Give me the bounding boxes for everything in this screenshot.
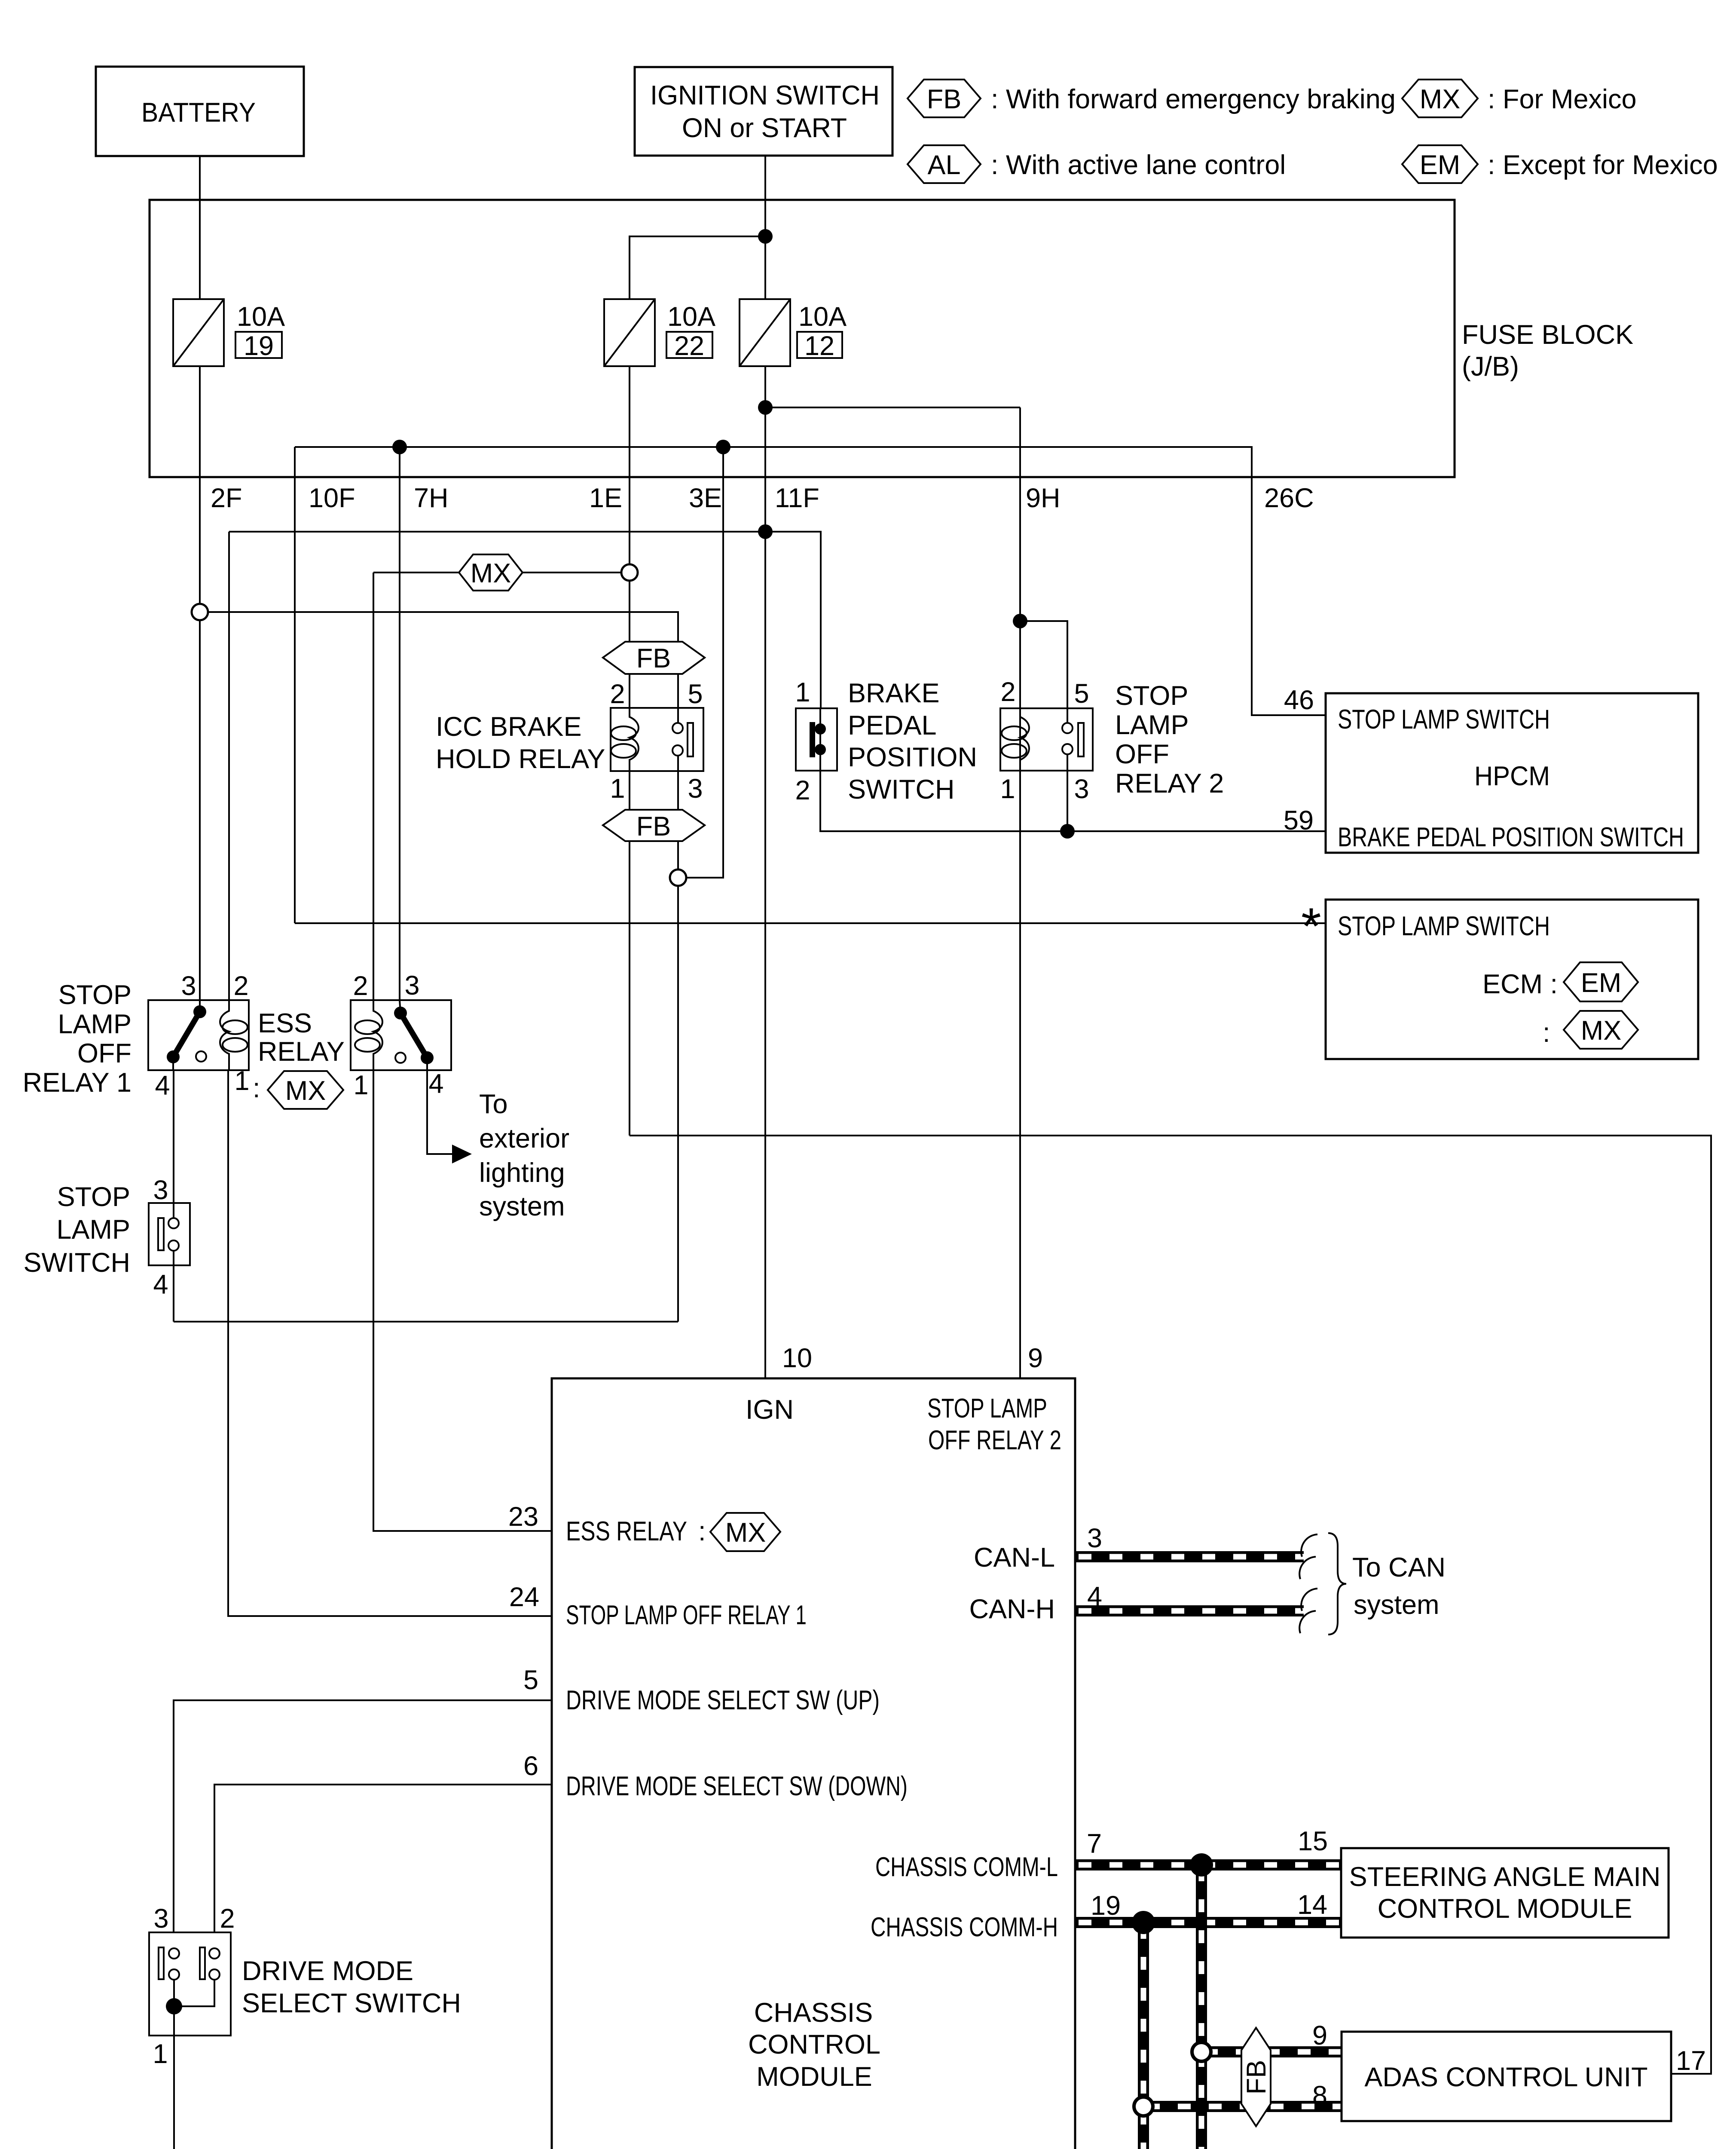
- svg-text:FB: FB: [927, 84, 962, 114]
- svg-text::: :: [253, 1073, 260, 1103]
- svg-text:22: 22: [674, 331, 704, 361]
- svg-text:ADAS CONTROL UNIT: ADAS CONTROL UNIT: [1364, 2062, 1647, 2092]
- svg-text:12: 12: [804, 331, 834, 361]
- svg-text:3: 3: [1074, 774, 1089, 804]
- svg-text:DRIVE MODE SELECT SW (UP): DRIVE MODE SELECT SW (UP): [566, 1685, 880, 1715]
- svg-text:STOP LAMP: STOP LAMP: [927, 1393, 1047, 1423]
- svg-text:2F: 2F: [211, 483, 242, 513]
- svg-text:8: 8: [1312, 2081, 1327, 2111]
- svg-text:2: 2: [353, 971, 368, 1001]
- svg-text:To: To: [479, 1089, 508, 1119]
- svg-text:ON or START: ON or START: [682, 113, 847, 143]
- svg-text:19: 19: [244, 331, 274, 361]
- svg-text:system: system: [1354, 1590, 1440, 1620]
- svg-text:BRAKE PEDAL POSITION SWITCH: BRAKE PEDAL POSITION SWITCH: [1338, 822, 1684, 852]
- svg-text:DRIVE MODE SELECT SW (DOWN): DRIVE MODE SELECT SW (DOWN): [566, 1771, 908, 1801]
- svg-text:3E: 3E: [689, 483, 722, 513]
- svg-text:26C: 26C: [1264, 483, 1314, 513]
- svg-text:9: 9: [1028, 1343, 1043, 1373]
- svg-text:6: 6: [523, 1751, 538, 1781]
- svg-text:24: 24: [509, 1582, 539, 1612]
- svg-text:MODULE: MODULE: [756, 2062, 872, 2092]
- svg-text:*: *: [1301, 897, 1321, 955]
- svg-text:4: 4: [1087, 1582, 1102, 1612]
- svg-text:7H: 7H: [414, 483, 449, 513]
- svg-text:ECM :: ECM :: [1482, 969, 1558, 999]
- svg-text:5: 5: [523, 1665, 538, 1695]
- svg-text:exterior: exterior: [479, 1123, 569, 1154]
- svg-text:CAN-H: CAN-H: [969, 1594, 1055, 1624]
- svg-text:: For Mexico: : For Mexico: [1488, 84, 1637, 114]
- svg-text:STEERING ANGLE MAIN: STEERING ANGLE MAIN: [1349, 1862, 1661, 1892]
- svg-text:10A: 10A: [667, 302, 715, 332]
- svg-text:BRAKE: BRAKE: [848, 678, 940, 708]
- svg-text:1: 1: [610, 774, 625, 804]
- svg-text:3: 3: [153, 1175, 168, 1205]
- svg-text:(J/B): (J/B): [1462, 352, 1519, 382]
- svg-text:2: 2: [1000, 677, 1015, 707]
- svg-text:RELAY 1: RELAY 1: [23, 1068, 131, 1098]
- svg-text:STOP LAMP SWITCH: STOP LAMP SWITCH: [1338, 911, 1550, 941]
- svg-text:CHASSIS: CHASSIS: [754, 1998, 873, 2028]
- svg-text:HPCM: HPCM: [1474, 761, 1550, 791]
- svg-text:46: 46: [1284, 685, 1314, 715]
- svg-text:9H: 9H: [1026, 483, 1061, 513]
- svg-text:1: 1: [353, 1070, 368, 1100]
- svg-text:OFF RELAY 2: OFF RELAY 2: [928, 1425, 1061, 1455]
- svg-text:3: 3: [1087, 1523, 1102, 1553]
- svg-text:1: 1: [234, 1066, 249, 1096]
- svg-text:CAN-L: CAN-L: [974, 1543, 1055, 1573]
- svg-text:LAMP: LAMP: [58, 1009, 131, 1039]
- svg-text:9: 9: [1312, 2020, 1327, 2051]
- svg-text:FB: FB: [1241, 2060, 1271, 2095]
- svg-text:59: 59: [1284, 805, 1314, 836]
- svg-text:19: 19: [1091, 1891, 1121, 1921]
- svg-text:2: 2: [233, 971, 248, 1001]
- svg-text:FUSE BLOCK: FUSE BLOCK: [1462, 320, 1633, 350]
- svg-text:3: 3: [153, 1904, 168, 1934]
- svg-text:3: 3: [688, 774, 703, 804]
- svg-text:HOLD RELAY: HOLD RELAY: [436, 744, 605, 774]
- svg-text:SWITCH: SWITCH: [848, 774, 954, 805]
- svg-text:MX: MX: [725, 1518, 766, 1548]
- svg-text:SELECT SWITCH: SELECT SWITCH: [242, 1988, 461, 2018]
- svg-text:1: 1: [153, 2039, 168, 2069]
- svg-text:BATTERY: BATTERY: [141, 98, 256, 128]
- svg-text:STOP LAMP SWITCH: STOP LAMP SWITCH: [1338, 704, 1550, 735]
- svg-text:CHASSIS COMM-L: CHASSIS COMM-L: [875, 1852, 1058, 1882]
- svg-text:7: 7: [1087, 1829, 1102, 1859]
- svg-text:IGNITION SWITCH: IGNITION SWITCH: [650, 80, 880, 110]
- svg-text:CONTROL: CONTROL: [748, 2030, 880, 2060]
- svg-text:ESS RELAY: ESS RELAY: [566, 1516, 687, 1546]
- svg-text:EM: EM: [1581, 968, 1622, 998]
- svg-text:lighting: lighting: [479, 1158, 565, 1188]
- svg-text:SWITCH: SWITCH: [24, 1248, 130, 1278]
- svg-text:1: 1: [795, 677, 810, 707]
- svg-text:EM: EM: [1420, 150, 1461, 180]
- svg-text:17: 17: [1676, 2046, 1706, 2076]
- svg-text:10F: 10F: [309, 483, 355, 513]
- svg-text:CHASSIS COMM-H: CHASSIS COMM-H: [871, 1912, 1058, 1942]
- svg-text:23: 23: [508, 1502, 538, 1532]
- svg-text:RELAY 2: RELAY 2: [1115, 768, 1224, 799]
- svg-text:STOP LAMP OFF RELAY 1: STOP LAMP OFF RELAY 1: [566, 1600, 807, 1630]
- svg-text:10A: 10A: [798, 302, 847, 332]
- svg-text:LAMP: LAMP: [56, 1215, 130, 1245]
- svg-text:3: 3: [404, 970, 419, 1001]
- svg-text:RELAY: RELAY: [258, 1037, 345, 1067]
- svg-text:OFF: OFF: [77, 1038, 131, 1068]
- svg-text:AL: AL: [927, 150, 960, 180]
- svg-text:2: 2: [610, 679, 625, 709]
- svg-text:MX: MX: [1581, 1016, 1622, 1046]
- svg-text:4: 4: [153, 1270, 168, 1300]
- svg-text:15: 15: [1298, 1826, 1328, 1856]
- svg-text:STOP: STOP: [1115, 681, 1188, 711]
- svg-text::: :: [698, 1516, 706, 1546]
- svg-text:11F: 11F: [775, 483, 819, 513]
- svg-text:FB: FB: [636, 643, 671, 673]
- svg-text:: With active lane control: : With active lane control: [991, 150, 1286, 180]
- svg-text:5: 5: [688, 679, 703, 709]
- svg-text:1E: 1E: [589, 483, 622, 513]
- svg-text:2: 2: [220, 1904, 235, 1934]
- svg-text:2: 2: [795, 775, 810, 805]
- svg-text:system: system: [479, 1191, 565, 1221]
- svg-text:FB: FB: [636, 811, 671, 842]
- svg-text:1: 1: [1000, 774, 1015, 804]
- svg-text:14: 14: [1297, 1890, 1327, 1920]
- svg-text:To CAN: To CAN: [1352, 1552, 1446, 1583]
- svg-text:ESS: ESS: [258, 1008, 312, 1038]
- svg-text:MX: MX: [285, 1076, 326, 1106]
- svg-text:STOP: STOP: [58, 980, 131, 1010]
- svg-text::: :: [1543, 1018, 1550, 1048]
- svg-text:: With forward emergency braki: : With forward emergency braking: [991, 84, 1396, 114]
- svg-text:4: 4: [155, 1071, 170, 1101]
- svg-text:POSITION: POSITION: [848, 742, 977, 772]
- svg-text:DRIVE MODE: DRIVE MODE: [242, 1956, 413, 1986]
- svg-text:PEDAL: PEDAL: [848, 710, 937, 741]
- svg-text:3: 3: [181, 971, 196, 1001]
- svg-text:ICC BRAKE: ICC BRAKE: [436, 712, 582, 742]
- svg-text:IGN: IGN: [746, 1395, 794, 1425]
- svg-text:LAMP: LAMP: [1115, 710, 1189, 740]
- svg-text:CONTROL MODULE: CONTROL MODULE: [1378, 1894, 1632, 1924]
- svg-text:OFF: OFF: [1115, 739, 1169, 769]
- svg-text:5: 5: [1074, 679, 1089, 709]
- svg-text:4: 4: [428, 1069, 443, 1099]
- svg-text:MX: MX: [471, 558, 511, 588]
- svg-text:: Except for Mexico: : Except for Mexico: [1488, 150, 1718, 180]
- svg-text:MX: MX: [1420, 84, 1461, 114]
- svg-text:10: 10: [782, 1343, 812, 1373]
- svg-text:10A: 10A: [237, 302, 285, 332]
- svg-text:STOP: STOP: [57, 1182, 130, 1212]
